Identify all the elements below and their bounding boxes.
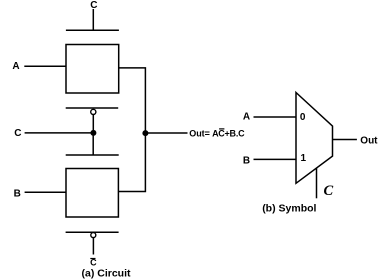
wire A input bbox=[24, 65, 66, 67]
wire bubble to label Cbar bbox=[92, 238, 94, 255]
transmission gate TG2 body bbox=[66, 169, 118, 218]
label Out= AC&#772;+B.C bbox=[189, 128, 245, 138]
inversion bubble TG1 bbox=[91, 109, 96, 114]
svg-text:A: A bbox=[243, 112, 250, 123]
wire A to mux bbox=[254, 116, 297, 118]
svg-text:B: B bbox=[14, 188, 21, 199]
svg-text:Out= A: Out= A bbox=[189, 128, 219, 138]
gate bar (bottom of TG2, inverted) bbox=[66, 231, 119, 233]
svg-text:C: C bbox=[324, 183, 334, 199]
wire C input bbox=[25, 132, 94, 134]
inversion bubble TG2 bbox=[91, 233, 96, 238]
wire node Out to label bbox=[145, 132, 187, 134]
svg-text:C: C bbox=[14, 128, 21, 139]
wire node C to TG2 gate bar bbox=[92, 133, 94, 155]
wire B input bbox=[25, 191, 66, 193]
label Cbar bbox=[90, 257, 97, 267]
wire TG1 output bbox=[119, 68, 146, 133]
junction node Out bbox=[142, 130, 148, 136]
wire B to mux bbox=[254, 158, 297, 160]
svg-text:B: B bbox=[243, 156, 250, 167]
mux U1 body bbox=[296, 93, 333, 184]
svg-text:A: A bbox=[12, 61, 19, 72]
gate bar (bottom of TG1, inverted) bbox=[66, 107, 119, 109]
wire TG2 output bbox=[118, 133, 145, 192]
wire C to top gate bar bbox=[92, 9, 94, 30]
svg-text:(a) Circuit: (a) Circuit bbox=[82, 267, 132, 279]
wire mux output bbox=[333, 139, 357, 141]
gate bar (top of transmission gate TG2) bbox=[66, 154, 119, 156]
junction node C bbox=[90, 130, 96, 136]
wire C select to mux bbox=[316, 168, 318, 198]
gate bar (top of transmission gate TG1) bbox=[66, 29, 119, 31]
svg-text:Out: Out bbox=[360, 135, 378, 146]
svg-text:0: 0 bbox=[300, 112, 306, 123]
svg-text:(b) Symbol: (b) Symbol bbox=[262, 203, 316, 215]
svg-text:+B.C: +B.C bbox=[225, 128, 246, 138]
svg-text:1: 1 bbox=[301, 153, 307, 164]
wire bubble to node C bbox=[92, 115, 94, 134]
transmission gate TG1 body bbox=[66, 45, 119, 94]
